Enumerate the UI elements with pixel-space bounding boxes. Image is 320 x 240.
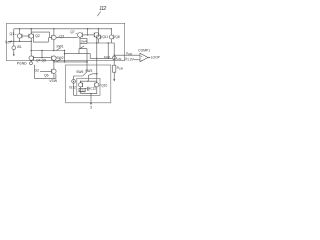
svg-text:SW4: SW4 (81, 40, 88, 44)
label Q2 (35, 34, 40, 38)
current source ILIM (112, 56, 116, 60)
transistor Q1 (17, 34, 21, 38)
label G2 (35, 69, 40, 73)
wire between pair (82, 34, 94, 36)
svg-text:Q11: Q11 (102, 35, 108, 39)
current source IS1 (12, 46, 16, 50)
wire W1 output row (87, 42, 111, 44)
label Q3 (59, 35, 64, 39)
comparator COMP1 (140, 53, 148, 62)
transistor Q4 (29, 56, 33, 60)
svg-text:C12: C12 (90, 87, 96, 91)
svg-text:ILIM: ILIM (104, 55, 110, 59)
vertical Q7 right drain down to B3 (96, 37, 98, 82)
svg-text:IS12: IS12 (69, 85, 76, 89)
bottom block box B2 (66, 65, 111, 103)
PGND pin terminal (30, 62, 33, 65)
wire Q2 drain to Q3 gate upper (31, 32, 52, 37)
H1 step wire from SW1/SW2 column to ILIM (65, 54, 113, 59)
svg-text:IS1: IS1 (17, 45, 22, 49)
label Q7 (70, 30, 75, 34)
transistor Q11 (96, 35, 100, 39)
wire rail elbow down to IS1 (13, 29, 15, 46)
vertical Q5 bottom through SW2 line to Q6 (53, 60, 55, 69)
label Q4 Q5 (36, 59, 46, 63)
current source IS12 (72, 79, 76, 83)
vertical Q2 bottom to Q4 top (30, 38, 32, 56)
switch SW4 contact (79, 43, 87, 48)
VSW wire loop (35, 65, 56, 79)
wire gate row Q4 Q5 (34, 57, 51, 59)
transistor Q2 (29, 34, 33, 38)
inner box B3 (77, 78, 100, 95)
label Q1 (10, 32, 15, 36)
Iout input label and arrow (5, 40, 11, 45)
switch SW2 (54, 61, 87, 63)
svg-text:VLIM: VLIM (126, 51, 132, 56)
wire Q3 row to Q7 (56, 36, 78, 38)
svg-text:1.2V: 1.2V (127, 58, 135, 62)
svg-text:Q6: Q6 (44, 73, 49, 77)
vertical SW4/SW2 net down to SW5 (86, 49, 88, 72)
vertical SW4 to H1 net (78, 49, 80, 54)
leader line for 112 (97, 12, 100, 17)
svg-text:RLIM: RLIM (117, 66, 123, 71)
capacitor C12 (87, 87, 89, 91)
label ILIM node (104, 55, 110, 59)
switch SW3 (85, 69, 92, 73)
svg-text:SW2: SW2 (56, 56, 63, 60)
wire B3 bottom (81, 93, 97, 95)
svg-text:C22: C22 (80, 88, 86, 92)
node 112 reference numeral (99, 6, 106, 12)
transistor Q7 pair right (94, 33, 99, 38)
resistor RLIM (113, 60, 115, 65)
transistor Q6 (52, 69, 56, 73)
svg-text:PGND: PGND (17, 62, 27, 66)
transistor Q8 (109, 35, 113, 39)
vertical SW1 to SW2 (64, 51, 66, 62)
transistor Q5 (52, 56, 56, 60)
link W1 to VLIM column (111, 43, 114, 56)
svg-text:Q7: Q7 (70, 30, 75, 34)
svg-text:SW1: SW1 (56, 45, 63, 49)
wire inside B3 top (81, 80, 97, 82)
switch SW4 block (80, 39, 87, 44)
svg-text:112: 112 (99, 6, 106, 12)
svg-text:Q1: Q1 (10, 32, 15, 36)
vertical W1 down to ILIM node (107, 43, 109, 58)
junction dots rails (19, 28, 20, 29)
LOOP output (147, 57, 150, 59)
VLIM wire to comparator (114, 54, 140, 56)
label VSW (49, 79, 58, 83)
svg-text:Q2: Q2 (35, 34, 40, 38)
label IS1 (17, 45, 22, 49)
transistor in B3 right (95, 83, 99, 87)
top supply rail (14, 28, 112, 30)
wire PGND rail to SW1 (31, 50, 64, 52)
transistor Q3 (52, 35, 56, 39)
transistor Q7 pair left (78, 33, 83, 38)
svg-text:Q10: Q10 (101, 83, 107, 87)
svg-text:SW3: SW3 (85, 69, 92, 73)
Q11 Q8 drains to W1 (98, 39, 111, 43)
label Q6 (44, 73, 49, 77)
rail tap to pair (87, 29, 89, 35)
wire Q1-Q2 gates (22, 35, 29, 37)
svg-text:LOOP: LOOP (151, 56, 161, 60)
svg-text:Q4 Q5: Q4 Q5 (36, 59, 46, 63)
capacitor C22 boxed label (79, 88, 85, 92)
switch SW5 (76, 70, 83, 74)
svg-text:Q3: Q3 (59, 35, 64, 39)
svg-text:G2: G2 (35, 69, 40, 73)
svg-text:-: - (141, 58, 142, 62)
wire Q2 gate U to Q3 gate (34, 37, 49, 42)
wire G2 to Q6 gate (40, 70, 52, 72)
switch SW1 (56, 48, 60, 51)
svg-text:IOUT: IOUT (5, 40, 11, 45)
ground stem with node 3 (90, 94, 92, 104)
outer block box 112 (7, 23, 125, 60)
1.2V reference (125, 58, 127, 61)
svg-text:VSW: VSW (49, 79, 58, 83)
svg-text:ILIM: ILIM (116, 56, 121, 61)
transistor in B3 left (79, 83, 83, 87)
svg-text:SW5: SW5 (76, 70, 83, 74)
svg-text:Q8: Q8 (115, 35, 119, 39)
wire lower left rail (8, 40, 31, 42)
svg-text:3: 3 (90, 105, 92, 109)
svg-text:COMP1: COMP1 (138, 49, 150, 53)
